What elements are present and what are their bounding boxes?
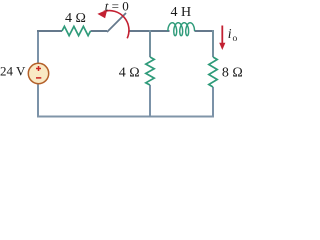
inductor L1 4H coil — [168, 23, 195, 36]
svg-text:i: i — [228, 26, 232, 41]
svg-text:8 Ω: 8 Ω — [222, 65, 243, 80]
resistor R1 4ohm horizontal zigzag — [62, 26, 91, 35]
resistor R2 4ohm vertical zigzag middle — [146, 57, 154, 85]
wire top between switch and inductor — [129, 30, 170, 32]
switch arc arrowhead — [97, 10, 107, 18]
svg-text:4 Ω: 4 Ω — [65, 11, 86, 26]
svg-text:24 V: 24 V — [0, 64, 26, 79]
voltage source plus sign — [36, 66, 41, 71]
wire middle vertical upper — [149, 30, 151, 57]
svg-text:4 H: 4 H — [170, 5, 191, 20]
wire right vertical lower — [212, 87, 214, 117]
voltage source V1 circle — [28, 63, 48, 83]
svg-text:o: o — [233, 34, 238, 44]
voltage source minus sign — [36, 77, 41, 79]
resistor R3 8ohm vertical zigzag right — [209, 57, 217, 87]
svg-text:4 Ω: 4 Ω — [119, 65, 140, 80]
switch red arc t=0 — [104, 11, 129, 39]
wire left vertical — [37, 31, 39, 116]
wire top left segment — [37, 30, 62, 32]
current arrow io — [221, 26, 223, 45]
wire bottom — [37, 116, 214, 118]
wire right vertical upper — [212, 30, 214, 57]
switch blade — [107, 13, 126, 32]
svg-text:t = 0: t = 0 — [105, 0, 129, 13]
wire top between inductor and right corner — [195, 30, 214, 32]
wire middle vertical lower — [149, 85, 151, 117]
wire top between resistor and switch — [91, 30, 108, 32]
